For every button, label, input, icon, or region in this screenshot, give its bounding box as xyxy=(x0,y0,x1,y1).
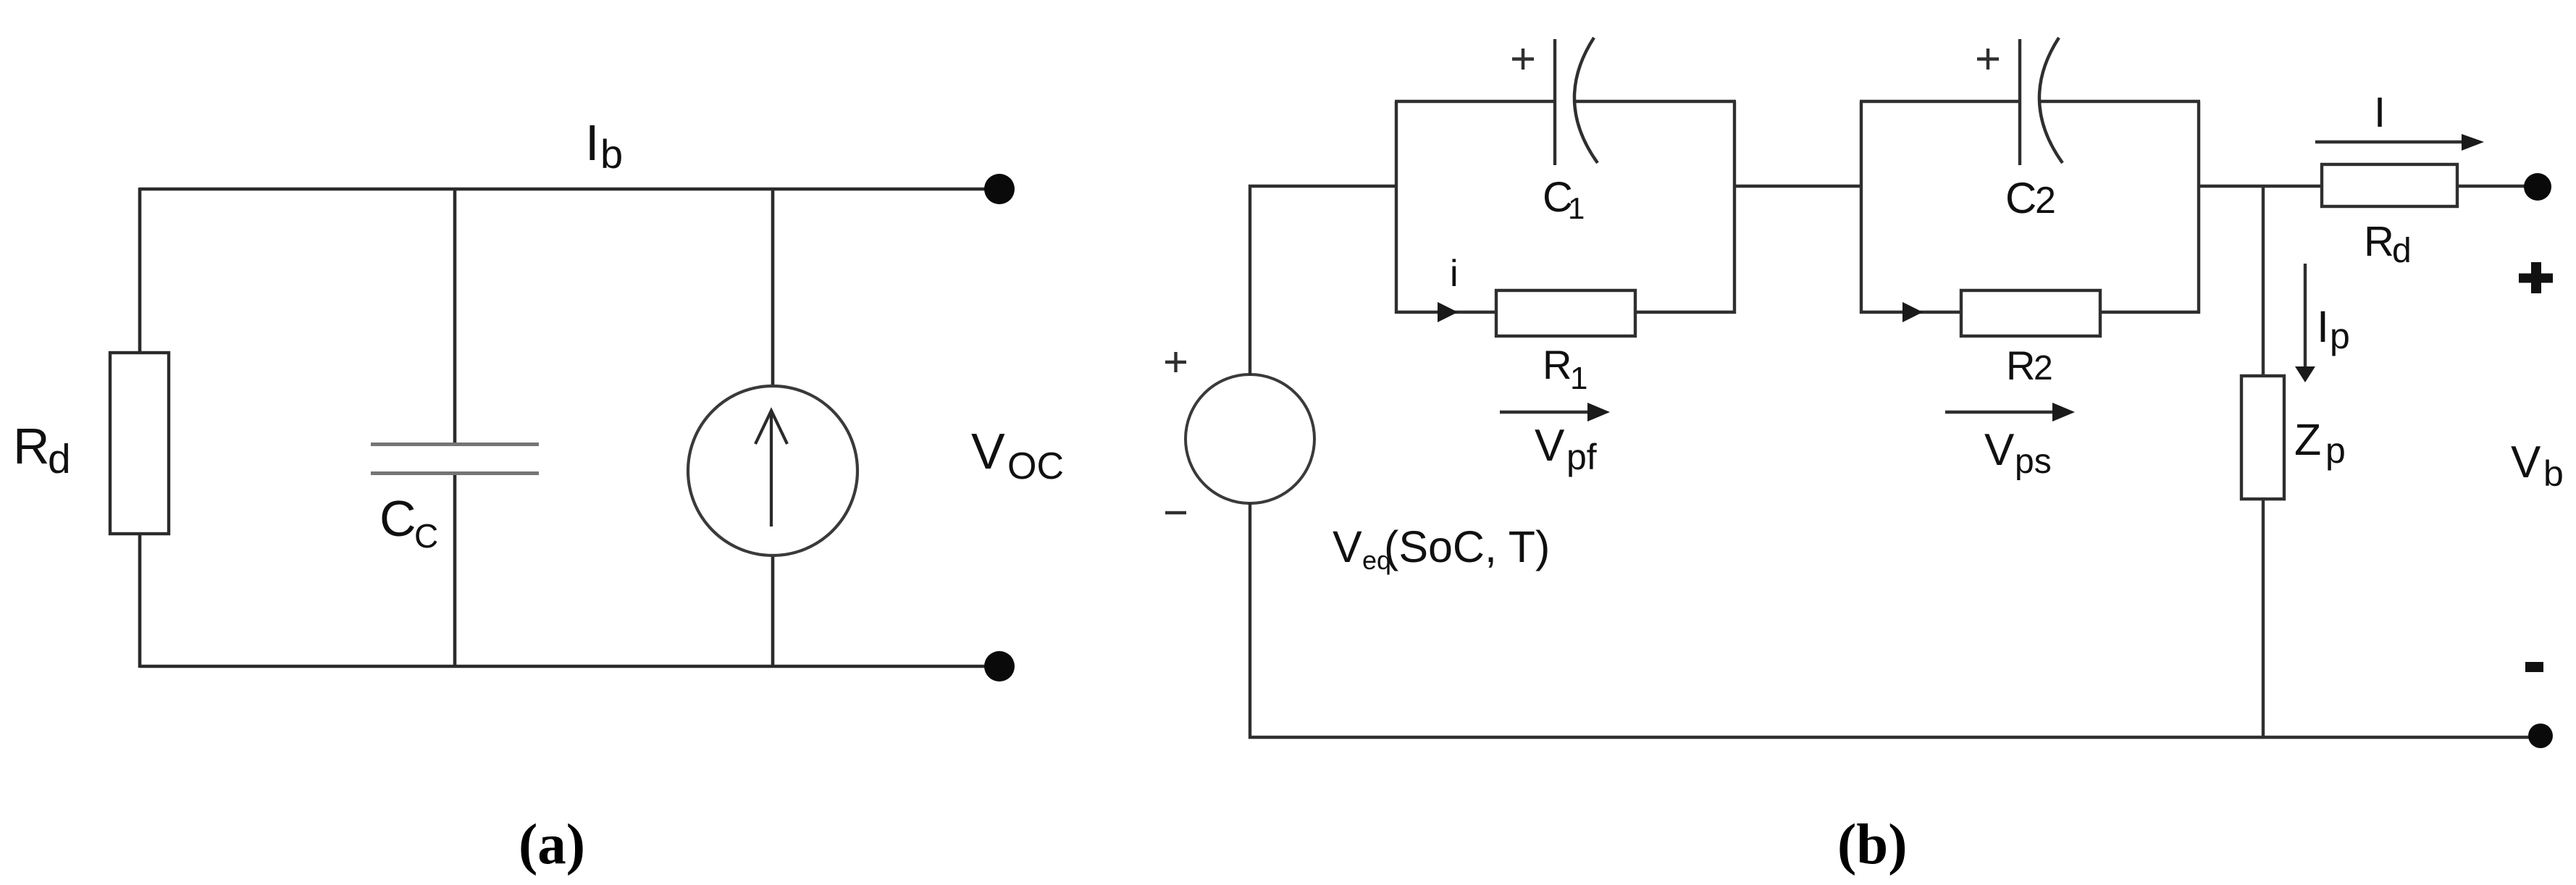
arrowhead current I xyxy=(2462,134,2484,151)
capacitor CC top plate xyxy=(371,442,539,446)
svg-text:R: R xyxy=(1543,342,1572,387)
wire Zp branch lower xyxy=(2262,498,2265,739)
wire (a) capacitor branch upper xyxy=(453,188,457,444)
wire (b) left branch upper xyxy=(1249,185,1251,376)
svg-text:C: C xyxy=(414,517,438,555)
svg-text:(SoC, T): (SoC, T) xyxy=(1384,522,1550,571)
svg-text:R: R xyxy=(13,418,50,474)
svg-text:I: I xyxy=(585,114,599,171)
svg-text:V: V xyxy=(971,423,1005,479)
svg-text:I: I xyxy=(2374,89,2386,136)
svg-text:V: V xyxy=(2511,437,2541,487)
wire (b) left branch lower xyxy=(1249,502,1251,739)
terminal node (b) top xyxy=(2524,173,2551,201)
svg-text:1: 1 xyxy=(1568,191,1585,225)
terminal node (a) bottom xyxy=(984,651,1015,681)
arrowhead Vps xyxy=(2052,403,2075,421)
terminal node (a) top xyxy=(984,174,1015,204)
capacitor C2 straight plate xyxy=(2018,39,2021,165)
svg-text:d: d xyxy=(48,436,71,482)
capacitor CC bottom plate xyxy=(371,471,539,475)
voltage source minus sign xyxy=(1165,511,1186,514)
wire box1 top-left segment xyxy=(1395,100,1555,103)
wire box2 top-left segment xyxy=(1860,100,2020,103)
terminal plus bold (b) xyxy=(2519,274,2553,283)
svg-text:C: C xyxy=(379,490,416,547)
wire box1 top-right segment xyxy=(1576,100,1736,103)
wire box2 left edge xyxy=(1860,101,1863,314)
terminal node (b) bottom xyxy=(2528,723,2553,748)
resistor Rd (b) body xyxy=(2322,164,2457,206)
current I arrow shaft xyxy=(2315,140,2464,143)
wire box1 right edge xyxy=(1733,101,1736,314)
svg-text:i: i xyxy=(1450,253,1459,295)
svg-text:p: p xyxy=(2330,316,2350,356)
svg-text:Z: Z xyxy=(2294,415,2321,464)
svg-text:V: V xyxy=(1535,421,1565,471)
arrowhead current i in box1 xyxy=(1438,302,1458,322)
wire box1 bottom-right segment xyxy=(1635,311,1736,314)
current source (a) arrow shaft xyxy=(770,413,773,527)
wire (b) bottom rail xyxy=(1249,736,2541,739)
current source (a) arrowhead xyxy=(755,411,787,444)
svg-text:(a): (a) xyxy=(519,813,585,876)
svg-text:V: V xyxy=(1984,425,2015,475)
arrowhead current i in box2 xyxy=(1902,302,1923,322)
svg-text:R: R xyxy=(2006,343,2035,388)
wire box2 to Rd xyxy=(2197,185,2323,188)
C2 polarity plus xyxy=(1977,57,1999,60)
arrow Ip shaft xyxy=(2304,264,2307,369)
resistor R1 body xyxy=(1496,290,1635,336)
wire (a) source branch upper xyxy=(771,188,775,387)
voltage source Veq circle xyxy=(1186,374,1314,503)
capacitor C2 curved plate xyxy=(2039,38,2063,163)
wire (a) left branch upper xyxy=(138,188,142,354)
svg-text:d: d xyxy=(2392,232,2412,270)
svg-text:2: 2 xyxy=(2035,180,2056,222)
svg-text:I: I xyxy=(2317,302,2329,351)
terminal minus bold (b) xyxy=(2525,662,2543,672)
wire (b) top rail to box1 xyxy=(1249,185,1398,188)
wire box2 right edge xyxy=(2197,101,2200,314)
svg-text:V: V xyxy=(1333,522,1362,571)
wire Zp branch upper xyxy=(2262,186,2265,377)
svg-text:pf: pf xyxy=(1566,437,1597,477)
wire box2 bottom-right segment xyxy=(2100,311,2200,314)
C1 polarity plus xyxy=(1512,57,1534,60)
wire box1 bottom-left segment xyxy=(1395,311,1496,314)
wire box2 top-right segment xyxy=(2041,100,2200,103)
impedance Zp body xyxy=(2241,376,2284,499)
arrow Vpf shaft xyxy=(1500,411,1593,414)
voltage source plus sign xyxy=(1165,361,1186,364)
wire (a) top rail xyxy=(140,188,999,191)
svg-text:p: p xyxy=(2325,430,2346,471)
wire (a) left branch lower xyxy=(138,532,142,668)
svg-text:ps: ps xyxy=(2015,442,2052,481)
wire box1-box2 link xyxy=(1733,185,1863,188)
svg-text:C: C xyxy=(2005,174,2036,222)
wire (a) source branch lower xyxy=(771,554,775,668)
capacitor C1 curved plate xyxy=(1574,38,1598,163)
arrowhead Ip xyxy=(2295,366,2315,382)
svg-text:2: 2 xyxy=(2034,349,2053,387)
svg-text:(b): (b) xyxy=(1837,813,1908,876)
wire (a) bottom rail xyxy=(140,665,999,668)
svg-text:b: b xyxy=(2543,453,2564,494)
svg-text:1: 1 xyxy=(1570,361,1587,396)
current source (a) circle xyxy=(688,386,857,555)
wire box2 bottom-left segment xyxy=(1860,311,1961,314)
arrow Vps shaft xyxy=(1945,411,2058,414)
svg-text:R: R xyxy=(2364,218,2394,265)
capacitor C1 straight plate xyxy=(1553,39,1556,165)
svg-text:OC: OC xyxy=(1007,445,1064,487)
arrowhead Vpf xyxy=(1587,403,1610,421)
wire box1 left edge xyxy=(1395,101,1398,314)
svg-text:b: b xyxy=(600,131,623,177)
resistor Rd (a) body xyxy=(110,353,169,534)
resistor R2 body xyxy=(1961,290,2100,336)
wire (a) capacitor branch lower xyxy=(453,473,457,668)
wire Rd to terminal xyxy=(2456,185,2526,188)
